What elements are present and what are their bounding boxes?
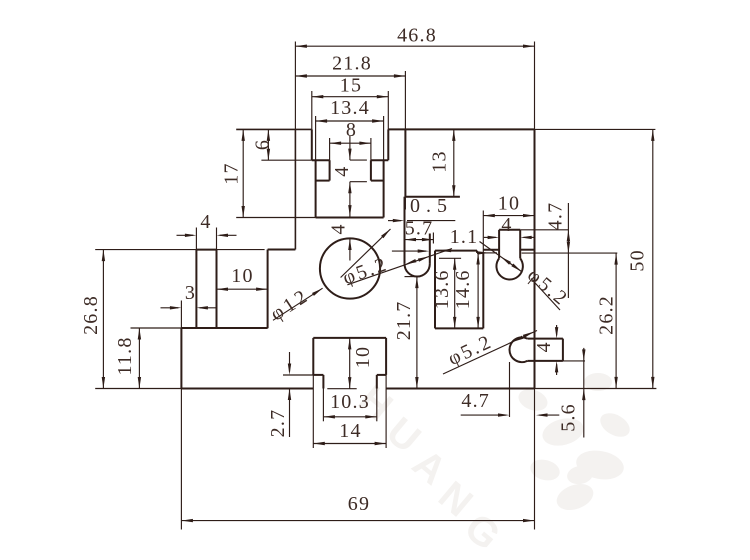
tongue bottom right xyxy=(371,180,384,182)
dim 3 xyxy=(161,307,179,309)
dim 4 tongue xyxy=(349,136,351,160)
ext 26.8 bottom xyxy=(95,388,181,390)
dim 1.1 arrows xyxy=(440,249,452,252)
watermark xyxy=(350,373,634,559)
ext 8 left xyxy=(329,138,331,160)
svg-text:10: 10 xyxy=(352,346,374,368)
ext 10 left / notch wall ext xyxy=(482,211,484,253)
part right edge xyxy=(534,129,536,388)
dim 10 window xyxy=(349,338,351,389)
slot level-1 left wall xyxy=(311,129,313,160)
ext 10.3 left xyxy=(322,389,324,422)
dim 10 left notch xyxy=(217,288,268,290)
window jog right xyxy=(377,374,386,376)
svg-text:4: 4 xyxy=(327,223,349,234)
svg-text:26.8: 26.8 xyxy=(80,295,102,335)
svg-text:26.2: 26.2 xyxy=(595,295,617,335)
ext 14 left xyxy=(312,375,314,448)
dim 4.7 upper xyxy=(567,203,569,298)
slot level-1 right wall xyxy=(387,129,389,160)
ext 46.8 left xyxy=(294,42,296,130)
ext 0.5 below wall xyxy=(404,197,406,210)
ext 13.6 top xyxy=(439,257,461,259)
dim 13.6 xyxy=(454,258,456,328)
top-left edge segment xyxy=(268,249,296,251)
top edge right body left part xyxy=(483,249,499,251)
dim 0.5 xyxy=(388,220,401,222)
keyhole KS3 stem bottom xyxy=(527,360,563,362)
ext 15 left xyxy=(311,91,313,129)
ext 69 left xyxy=(180,389,182,530)
left notch right wall xyxy=(267,250,269,329)
svg-text:17: 17 xyxy=(221,162,243,184)
part top edge left section xyxy=(236,128,312,130)
window left wall xyxy=(312,338,314,375)
svg-text:11.8: 11.8 xyxy=(114,336,136,375)
ext 4 tab right xyxy=(216,228,218,250)
upper right inner wall xyxy=(404,129,406,196)
svg-text:15: 15 xyxy=(340,75,362,97)
svg-text:69: 69 xyxy=(348,493,370,515)
ext bottom edge level tick xyxy=(327,388,356,390)
ext 26.8/11.8 shelf xyxy=(131,327,182,329)
shelf right of wall xyxy=(405,196,460,198)
dim 4 tab xyxy=(177,234,194,236)
svg-text:10.3: 10.3 xyxy=(330,391,370,413)
svg-text:50: 50 xyxy=(626,249,648,271)
dim 13 xyxy=(453,129,455,196)
dim 4 KS3 xyxy=(556,325,558,335)
svg-text:4.7: 4.7 xyxy=(461,390,490,412)
dim 17 xyxy=(242,129,244,217)
ext 21.8 right xyxy=(404,71,406,129)
svg-text:4.7: 4.7 xyxy=(545,202,567,231)
ext 8 right xyxy=(370,138,372,160)
ext 17 bottom xyxy=(236,217,315,219)
svg-text:10: 10 xyxy=(498,193,520,215)
bottom slot left wall xyxy=(322,375,324,389)
keyhole KS2 stem top xyxy=(499,229,520,231)
ext 4 tab left xyxy=(195,228,197,250)
svg-text:2.7: 2.7 xyxy=(267,409,289,438)
ext 50/26.2 bottom xyxy=(535,388,657,390)
notch jog vertical 1.1 xyxy=(476,251,478,253)
ext 5.7 right xyxy=(432,233,434,244)
leader KS2 phi5.2 xyxy=(480,242,522,272)
left edge of bottom block xyxy=(180,328,182,389)
dim 10.3 xyxy=(323,416,376,418)
tongue right wall xyxy=(370,160,372,180)
svg-text:14: 14 xyxy=(339,420,361,442)
dim 4 KS2 xyxy=(484,236,496,238)
svg-text:10: 10 xyxy=(231,265,253,287)
ext 4.7 bottom left xyxy=(509,362,511,417)
notch bottom xyxy=(435,327,483,329)
dim 26.8 xyxy=(102,250,104,389)
window top xyxy=(313,337,386,339)
dim 6 xyxy=(267,129,269,160)
svg-text:21.8: 21.8 xyxy=(332,53,372,75)
left body top edge / tab top xyxy=(196,249,216,251)
dim 13.4 xyxy=(316,120,384,122)
dim 5.7 xyxy=(405,239,434,241)
ext 3 left xyxy=(180,301,182,329)
window jog left xyxy=(313,374,323,376)
notch jog horizontal xyxy=(477,252,483,254)
svg-text:4: 4 xyxy=(501,214,512,236)
ext 26.2 top xyxy=(522,252,618,254)
dim 2.7 xyxy=(289,352,291,372)
svg-text:4: 4 xyxy=(200,211,211,233)
dim 26.2 xyxy=(615,253,617,388)
top edge right body right part xyxy=(520,249,534,251)
keyhole KS3 end cap xyxy=(562,339,564,361)
dim 4.7 bottom xyxy=(461,414,507,416)
svg-text:4: 4 xyxy=(331,165,353,176)
ext 14 right xyxy=(385,375,387,448)
slot shelf right xyxy=(371,159,388,161)
dim 14 xyxy=(313,443,386,445)
svg-text:14.6: 14.6 xyxy=(452,269,474,309)
ext 15 right xyxy=(387,91,389,129)
tab left wall xyxy=(195,250,197,328)
svg-text:13: 13 xyxy=(429,150,451,172)
window right wall xyxy=(385,338,387,375)
ext 4.7 top xyxy=(520,229,568,231)
keyhole KS2 left wall xyxy=(498,230,500,259)
slot level-2 right wall xyxy=(383,160,385,217)
svg-text:0.5: 0.5 xyxy=(410,195,453,217)
tongue bottom left xyxy=(316,180,330,182)
dim 15 xyxy=(312,96,389,98)
dim 8 xyxy=(330,142,371,144)
dim 5.6 xyxy=(583,348,585,438)
ext 2.7 left xyxy=(283,374,313,376)
dim 4 circle top xyxy=(349,239,351,261)
ext 46.8/50 right xyxy=(534,42,536,130)
ext 13.4 right xyxy=(383,116,385,160)
svg-text:8: 8 xyxy=(346,119,357,141)
slot level-2 left wall xyxy=(315,160,317,217)
diagonal through phi12 xyxy=(341,229,391,278)
ext over left notch xyxy=(217,249,265,251)
dim 50 xyxy=(652,129,654,388)
bottom slot right wall xyxy=(376,375,378,389)
dim 11.8 xyxy=(138,328,140,389)
notch left wall xyxy=(434,251,436,329)
ext 21.7 top tangent xyxy=(405,276,421,278)
ext 26.8 top xyxy=(95,249,196,251)
ext 69 right xyxy=(534,389,536,530)
svg-text:5.6: 5.6 xyxy=(558,403,580,432)
tab right wall xyxy=(216,250,218,328)
svg-text:1.1: 1.1 xyxy=(450,226,479,248)
svg-text:46.8: 46.8 xyxy=(397,25,437,47)
keyhole KS1 bottom arc xyxy=(405,264,430,277)
bend line center xyxy=(294,129,296,249)
dim 14.6 xyxy=(477,253,479,328)
leader KS3 phi5.2 xyxy=(443,331,537,375)
dim 69 xyxy=(181,520,534,522)
keyhole KS1 right wall xyxy=(429,234,431,264)
slot bottom xyxy=(316,217,384,219)
notch right wall xyxy=(482,253,484,329)
leader KS1 phi5.2 xyxy=(347,249,452,285)
bottom edge right section xyxy=(386,388,534,390)
keyhole KS2 circle arc xyxy=(496,258,522,279)
ext 13.4 left xyxy=(315,116,317,160)
keyhole KS1 left wall xyxy=(404,197,406,264)
tongue left wall xyxy=(329,160,331,180)
part top edge right section xyxy=(388,128,534,130)
ext 50 top xyxy=(535,128,656,130)
ext 6 xyxy=(261,159,311,161)
leader KS2 label line xyxy=(531,279,560,311)
dim 10 right xyxy=(483,215,534,217)
svg-text:21.7: 21.7 xyxy=(393,300,415,340)
keyhole KS3 stem top xyxy=(527,338,563,340)
dim 46.8 xyxy=(295,45,534,47)
keyhole KS3 circle arc xyxy=(510,337,528,362)
svg-text:13.6: 13.6 xyxy=(431,269,453,309)
dim 21.7 xyxy=(416,277,418,389)
svg-text:5.7: 5.7 xyxy=(405,218,434,240)
slot shelf left xyxy=(312,159,330,161)
keyhole KS2 right wall xyxy=(519,230,521,259)
svg-text:6: 6 xyxy=(252,139,274,150)
leader phi12 xyxy=(273,288,323,320)
ext 10.3 right xyxy=(376,389,378,422)
hole phi12 xyxy=(320,238,380,298)
bottom edge left section xyxy=(181,388,313,390)
svg-text:4: 4 xyxy=(533,341,555,352)
svg-text:3: 3 xyxy=(185,282,196,304)
svg-text:13.4: 13.4 xyxy=(330,97,370,119)
dim 21.8 xyxy=(295,75,405,77)
ext 5.6 top xyxy=(563,360,585,362)
arrow at KS1 slot xyxy=(392,250,426,252)
notch top edge xyxy=(435,250,477,252)
left shelf xyxy=(181,327,267,329)
